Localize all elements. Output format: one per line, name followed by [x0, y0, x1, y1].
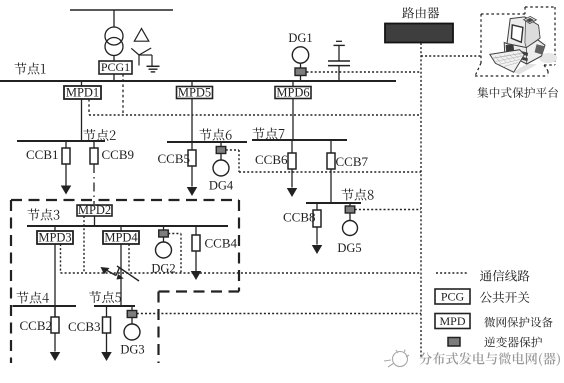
svg-text:CCB5: CCB5: [158, 151, 191, 166]
svg-text:PCG1: PCG1: [101, 60, 130, 74]
svg-text:MPD: MPD: [439, 314, 465, 328]
svg-text:DG4: DG4: [209, 179, 234, 193]
svg-text:CCB9: CCB9: [102, 147, 135, 162]
svg-text:MPD6: MPD6: [276, 86, 309, 100]
svg-text:PCG: PCG: [441, 290, 465, 304]
svg-text:CCB2: CCB2: [20, 318, 53, 333]
svg-text:DG5: DG5: [337, 241, 361, 255]
svg-text:CCB8: CCB8: [283, 210, 316, 225]
svg-text:MPD3: MPD3: [38, 231, 71, 245]
svg-text:CCB4: CCB4: [205, 236, 238, 251]
svg-text:CCB1: CCB1: [26, 147, 59, 162]
svg-text:MPD5: MPD5: [178, 86, 211, 100]
svg-text:MPD1: MPD1: [66, 86, 99, 100]
svg-text:CCB6: CCB6: [255, 152, 288, 167]
svg-text:DG1: DG1: [288, 31, 312, 45]
svg-text:CCB7: CCB7: [336, 154, 369, 169]
svg-text:MPD4: MPD4: [104, 231, 138, 245]
svg-text:MPD2: MPD2: [78, 203, 111, 217]
svg-text:DG3: DG3: [120, 343, 144, 357]
svg-text:CCB3: CCB3: [68, 319, 101, 334]
